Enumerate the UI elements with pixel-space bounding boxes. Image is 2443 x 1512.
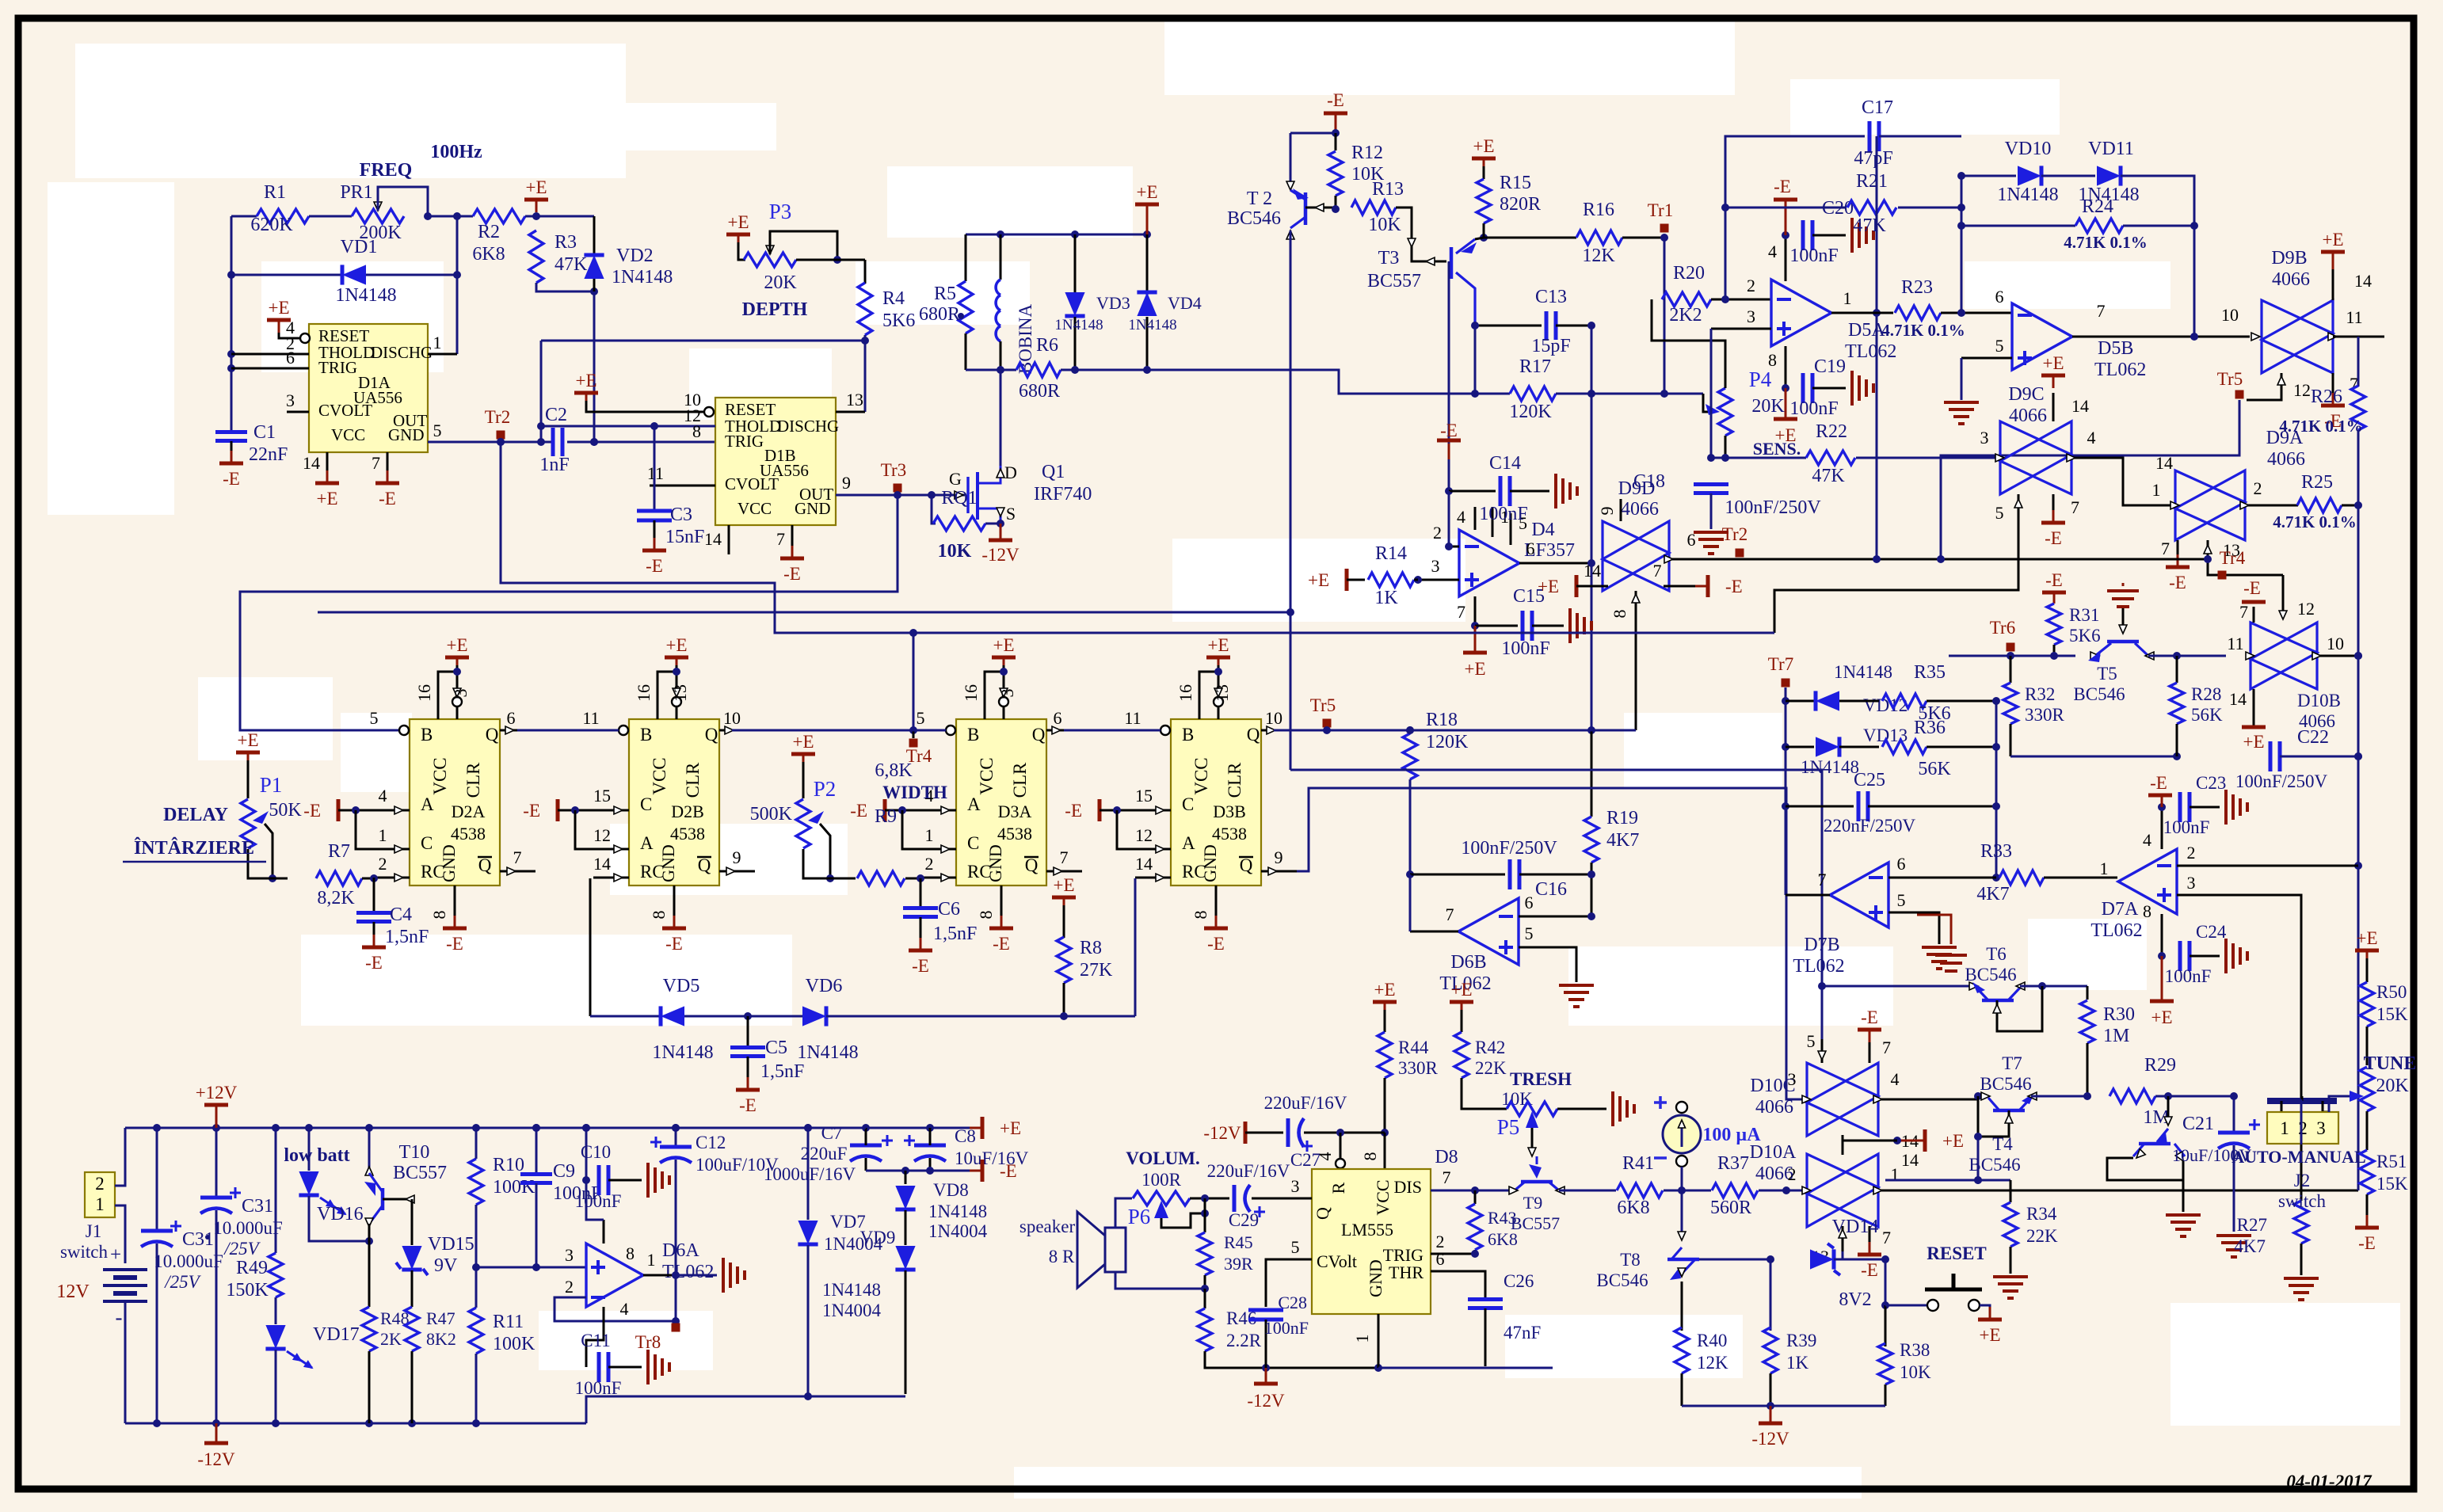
svg-text:4066: 4066 <box>2272 269 2310 290</box>
svg-text:14: 14 <box>2354 271 2372 291</box>
svg-text:FREQ: FREQ <box>360 160 413 181</box>
svg-text:+E: +E <box>1473 136 1494 156</box>
svg-text:VD11: VD11 <box>2088 139 2134 159</box>
svg-text:13: 13 <box>846 390 863 409</box>
svg-text:8,2K: 8,2K <box>317 888 355 908</box>
svg-text:100nF: 100nF <box>1264 1318 1309 1338</box>
svg-text:14: 14 <box>704 529 722 549</box>
svg-text:20K: 20K <box>1751 396 1785 417</box>
wire output bus x2369 <box>1876 136 1878 313</box>
pin 6 wire D7B <box>1888 877 1996 879</box>
pin 4 reset stub <box>279 333 299 338</box>
pin 5 stub D10C <box>1821 1039 1824 1063</box>
capacitor C15 <box>1475 625 1518 627</box>
svg-text:10K: 10K <box>1501 1089 1533 1109</box>
pin 14 wire D9D <box>1575 575 1579 597</box>
svg-text:VCC: VCC <box>650 757 669 794</box>
svg-text:Tr4: Tr4 <box>2220 548 2246 568</box>
wire bus Tr2 to D9C pin5 <box>501 442 1774 633</box>
wire Tr3 run to D2A pin5 <box>240 495 898 730</box>
svg-text:THR: THR <box>1389 1263 1423 1282</box>
diode VD12 <box>1786 700 1814 703</box>
pin 14 stub D9C <box>2052 393 2055 421</box>
svg-text:1: 1 <box>433 333 442 352</box>
svg-text:120K: 120K <box>1509 402 1552 422</box>
svg-text:14: 14 <box>1584 561 1601 581</box>
svg-text:R: R <box>1328 1182 1348 1194</box>
power +E C19 <box>1785 388 1787 417</box>
power -E D9B <box>2321 404 2345 408</box>
diode VD17 LED <box>265 1325 285 1349</box>
capacitor C18 <box>1694 485 1728 493</box>
svg-text:+E: +E <box>727 212 749 232</box>
capacitor C3 <box>654 426 656 511</box>
svg-text:Tr3: Tr3 <box>881 460 906 480</box>
wire T3 collector down <box>1474 326 1477 394</box>
diode VD13 <box>1786 746 1814 748</box>
svg-text:-E: -E <box>1000 1161 1017 1181</box>
svg-text:R1: R1 <box>264 182 286 203</box>
svg-text:Tr6: Tr6 <box>1990 618 2015 638</box>
svg-text:-E: -E <box>1327 90 1344 110</box>
svg-text:10.000uF: 10.000uF <box>213 1218 283 1238</box>
pin C D3A <box>902 810 956 849</box>
opamp D7B TL062 <box>1830 863 1888 927</box>
svg-text:R40: R40 <box>1697 1331 1727 1350</box>
svg-text:1: 1 <box>1352 1335 1372 1343</box>
svg-text:D9D: D9D <box>1618 478 1656 499</box>
svg-text:8: 8 <box>692 421 701 441</box>
svg-text:1: 1 <box>647 1250 656 1270</box>
svg-text:2: 2 <box>925 854 934 874</box>
resistor R5 <box>965 234 967 281</box>
pin 5 OUT wire <box>428 441 553 444</box>
power -E D9C <box>2041 521 2065 525</box>
svg-text:820R: 820R <box>1500 194 1541 215</box>
svg-text:R28: R28 <box>2191 684 2221 704</box>
pin11 circle D2B <box>619 726 628 735</box>
svg-text:12K: 12K <box>1582 246 1615 266</box>
svg-text:BC546: BC546 <box>1596 1270 1648 1290</box>
svg-text:1: 1 <box>2100 859 2109 878</box>
svg-text:GND: GND <box>985 844 1005 882</box>
svg-text:TRIG: TRIG <box>318 358 357 377</box>
svg-text:1N4148: 1N4148 <box>1834 662 1892 682</box>
resistor R7 <box>316 871 362 885</box>
svg-text:T7: T7 <box>2002 1053 2022 1073</box>
svg-text:680R: 680R <box>1019 381 1060 402</box>
wire R3 bottom <box>536 283 594 291</box>
pin Q D2B <box>719 729 737 732</box>
testpoint Tr4 right <box>2208 559 2283 575</box>
power +E pin14 <box>315 482 339 486</box>
svg-text:low batt: low batt <box>284 1145 349 1166</box>
analog switch D10C 4066 <box>1807 1063 1878 1136</box>
resistor R18 <box>1406 726 1414 734</box>
pin 1 stub LM555 <box>1378 1314 1380 1368</box>
capacitor C31 first <box>156 1128 158 1229</box>
diode VD1 <box>231 274 341 276</box>
svg-text:C12: C12 <box>696 1133 726 1152</box>
svg-text:TL062: TL062 <box>662 1262 714 1282</box>
svg-text:C11: C11 <box>581 1331 611 1350</box>
svg-text:1K: 1K <box>1786 1353 1809 1373</box>
svg-text:-E: -E <box>1207 934 1225 954</box>
svg-text:-E: -E <box>2358 1233 2376 1253</box>
pin 3 wire D7A <box>2177 895 2301 1099</box>
svg-text:C8: C8 <box>955 1126 976 1146</box>
wire T8 emitter down <box>1681 1282 1683 1331</box>
svg-text:10K: 10K <box>938 541 972 562</box>
svg-text:D5B: D5B <box>2098 338 2133 359</box>
capacitor C6 <box>920 878 922 908</box>
svg-text:-E: -E <box>223 469 240 489</box>
svg-text:150K: 150K <box>226 1280 269 1301</box>
power +E D10 <box>1923 1129 1927 1152</box>
svg-text:Q: Q <box>1240 855 1253 875</box>
svg-text:C3: C3 <box>670 505 692 525</box>
potentiometer P3 <box>744 253 796 267</box>
svg-text:2: 2 <box>2187 843 2196 863</box>
svg-text:56K: 56K <box>2191 705 2223 725</box>
svg-text:12K: 12K <box>1697 1353 1728 1373</box>
svg-text:1N4004: 1N4004 <box>928 1221 988 1241</box>
svg-text:220uF/16V: 220uF/16V <box>1207 1161 1290 1181</box>
svg-text:C: C <box>967 833 979 853</box>
IC D1A UA556 <box>309 324 428 452</box>
ground C18 <box>1694 531 1728 534</box>
svg-text:100K: 100K <box>493 1177 535 1198</box>
svg-text:4538: 4538 <box>451 824 486 844</box>
svg-text:10.000uF: 10.000uF <box>154 1251 223 1271</box>
svg-text:4538: 4538 <box>997 824 1032 844</box>
pin 14 stub <box>326 452 329 479</box>
svg-text:6: 6 <box>286 348 295 368</box>
testpoint Tr3 <box>894 484 902 493</box>
svg-text:CLR: CLR <box>1225 762 1244 798</box>
svg-text:C1: C1 <box>253 422 276 443</box>
opamp D4 LF357 <box>1459 530 1519 596</box>
svg-text:22nF: 22nF <box>249 444 288 465</box>
resistor R19 <box>1587 726 1595 734</box>
IC D1B UA556 <box>715 398 836 525</box>
pin RC D2B <box>593 877 629 879</box>
svg-text:+E: +E <box>2151 1007 2172 1027</box>
pin A D3B <box>1098 799 1102 821</box>
svg-text:C19: C19 <box>1814 356 1846 377</box>
resistor R23 <box>1895 306 1941 320</box>
power -E D9A <box>2166 566 2190 569</box>
potentiometer P2 WIDTH <box>791 752 815 756</box>
svg-text:7: 7 <box>2239 602 2248 622</box>
earth T5 base <box>2107 591 2139 607</box>
pin 4 wire D10C <box>1878 1099 1978 1101</box>
resistor R37 <box>1712 1183 1758 1198</box>
resistor R1 <box>257 209 309 223</box>
power -E C1 <box>219 462 243 466</box>
power +12V <box>204 1103 228 1107</box>
svg-text:9: 9 <box>733 847 741 867</box>
svg-text:C31: C31 <box>242 1196 273 1217</box>
power -E C5 <box>736 1088 760 1092</box>
svg-text:J2: J2 <box>2294 1171 2310 1190</box>
ground D7B pin5 <box>1922 946 1957 949</box>
svg-text:2.2R: 2.2R <box>1226 1331 1262 1350</box>
pin 7 stub <box>387 452 389 479</box>
svg-text:Q: Q <box>705 725 718 745</box>
svg-text:R5: R5 <box>934 284 956 304</box>
resistor R46 <box>1204 1289 1206 1308</box>
svg-text:6: 6 <box>1995 287 2004 307</box>
resistor R21 feedback <box>1725 207 1846 209</box>
resistor R31 <box>2047 604 2061 645</box>
svg-text:Q1: Q1 <box>1042 462 1065 482</box>
svg-text:-E: -E <box>446 934 463 954</box>
svg-text:560R: 560R <box>1710 1198 1751 1218</box>
svg-text:R8: R8 <box>1080 938 1102 958</box>
svg-text:-E: -E <box>2150 773 2167 793</box>
pin 7 stub D9B <box>2332 373 2334 402</box>
wire D2A Q6 to D2B pin11 <box>517 729 619 732</box>
wire right vertical pin1 <box>456 216 459 354</box>
pin 1 wire <box>428 353 457 356</box>
svg-text:8: 8 <box>626 1243 635 1263</box>
pin 12 stub D9B <box>2247 373 2281 400</box>
svg-text:100Hz: 100Hz <box>430 142 482 162</box>
svg-text:R29: R29 <box>2144 1055 2176 1076</box>
wire VD2 bottom to C2 node <box>593 291 596 442</box>
pin 3 wire <box>1711 328 1771 330</box>
svg-text:T 2: T 2 <box>1247 189 1272 209</box>
diode VD8 <box>905 1171 907 1184</box>
svg-text:1: 1 <box>95 1194 105 1214</box>
svg-text:Q: Q <box>698 855 711 875</box>
svg-text:6K8: 6K8 <box>1617 1198 1649 1218</box>
svg-text:D6B: D6B <box>1450 952 1486 973</box>
svg-text:CVOLT: CVOLT <box>725 474 779 493</box>
svg-text:20K: 20K <box>2376 1076 2409 1096</box>
svg-text:330R: 330R <box>2025 705 2065 725</box>
resistor R28 <box>2173 652 2181 660</box>
testpoint Tr2 right <box>1736 549 1744 558</box>
svg-text:7: 7 <box>2071 497 2079 517</box>
svg-text:100nF: 100nF <box>575 1191 622 1211</box>
svg-text:4: 4 <box>1891 1069 1900 1089</box>
svg-text:D8: D8 <box>1435 1147 1458 1167</box>
capacitor C12 <box>675 1128 677 1147</box>
svg-text:VD14: VD14 <box>1832 1217 1879 1237</box>
wire left vertical <box>231 216 233 432</box>
svg-text:220nF/250V: 220nF/250V <box>1824 816 1916 836</box>
pin 2 wire D9A <box>2245 505 2298 507</box>
svg-text:+E: +E <box>1136 182 1157 202</box>
svg-text:12V: 12V <box>56 1282 90 1302</box>
wire bus to R27 top <box>2300 1099 2303 1144</box>
svg-text:4: 4 <box>1457 507 1465 527</box>
svg-text:7: 7 <box>2161 539 2170 558</box>
svg-text:1: 1 <box>2280 1118 2289 1138</box>
pin 2 wire D7A <box>2177 865 2358 867</box>
pin 14 stub D10C <box>1842 1135 1844 1155</box>
wire T7 emitter column <box>1977 1137 1980 1180</box>
svg-text:R32: R32 <box>2025 684 2055 704</box>
svg-text:12: 12 <box>593 825 611 845</box>
pin 11 wire D10B <box>2246 652 2254 660</box>
opamp D6A TL062 <box>586 1243 643 1307</box>
svg-text:14: 14 <box>1135 854 1153 874</box>
svg-text:-E: -E <box>783 564 801 584</box>
svg-text:+E: +E <box>2322 230 2343 249</box>
svg-text:2: 2 <box>1747 276 1755 295</box>
svg-text:3: 3 <box>286 390 295 410</box>
svg-text:4: 4 <box>620 1299 629 1319</box>
mosfet Q1 IRF740 <box>928 491 936 499</box>
svg-text:VD16: VD16 <box>317 1204 364 1224</box>
svg-text:47pF: 47pF <box>1854 148 1892 169</box>
svg-text:4.71K 0.1%: 4.71K 0.1% <box>1881 321 1965 340</box>
svg-text:+E: +E <box>1053 875 1074 895</box>
power -E D3A <box>989 927 1013 931</box>
svg-text:20K: 20K <box>764 272 797 293</box>
svg-text:BC557: BC557 <box>393 1163 447 1183</box>
power -E pin7 <box>375 482 399 486</box>
ground D6B pin5 <box>1559 984 1594 987</box>
svg-text:C2: C2 <box>545 405 567 425</box>
resistor R49 <box>275 1128 277 1253</box>
svg-text:50K: 50K <box>269 800 302 821</box>
svg-text:VCC: VCC <box>977 757 997 794</box>
svg-text:14: 14 <box>2229 689 2247 709</box>
pin 7 wire D9D <box>1664 585 1702 588</box>
pin5 circle D3A <box>946 726 955 735</box>
svg-text:7: 7 <box>1818 870 1827 889</box>
svg-text:680R: 680R <box>919 304 960 325</box>
svg-text:VD8: VD8 <box>933 1180 969 1200</box>
svg-text:TL062: TL062 <box>2090 920 2142 941</box>
svg-text:R26: R26 <box>2311 387 2342 407</box>
svg-text:D7B: D7B <box>1804 935 1839 955</box>
pin 7 stub <box>791 525 794 554</box>
svg-text:+E: +E <box>2042 353 2064 373</box>
svg-text:D9A: D9A <box>2266 428 2304 448</box>
svg-text:+E: +E <box>2243 732 2264 752</box>
svg-text:VD3: VD3 <box>1096 293 1130 313</box>
svg-text:BC546: BC546 <box>1227 208 1281 229</box>
capacitor C8 <box>914 1144 946 1148</box>
svg-text:R3: R3 <box>555 232 577 253</box>
svg-text:14: 14 <box>2155 453 2173 473</box>
potentiometer PR1 <box>352 209 404 223</box>
svg-text:5: 5 <box>370 708 379 728</box>
pin 3 wire D9C <box>1995 454 2004 462</box>
svg-text:1N4148: 1N4148 <box>822 1280 881 1300</box>
pin 1 wire D9A <box>2170 501 2179 509</box>
power -E R51 <box>2355 1226 2379 1230</box>
svg-text:1N4148: 1N4148 <box>928 1202 987 1221</box>
resistor R13 <box>1351 200 1396 215</box>
svg-text:2: 2 <box>1788 1164 1797 1184</box>
testpoint Tr8 <box>672 1323 680 1332</box>
svg-text:C14: C14 <box>1489 453 1521 474</box>
svg-text:-E: -E <box>2169 573 2186 592</box>
svg-text:1N4148: 1N4148 <box>1997 185 2058 205</box>
svg-text:R24: R24 <box>2082 196 2113 217</box>
svg-text:R45: R45 <box>1224 1232 1253 1252</box>
pin C D2B <box>575 810 629 849</box>
svg-text:Tr1: Tr1 <box>1648 200 1673 220</box>
svg-text:4538: 4538 <box>670 824 705 844</box>
svg-text:R38: R38 <box>1900 1340 1930 1360</box>
wire D3A Q6 to D3B pin11 <box>1064 729 1161 732</box>
opamp D5A TL062 <box>1771 280 1831 346</box>
svg-text:16: 16 <box>414 684 434 702</box>
wire CS minus to R37 node <box>1681 1167 1683 1190</box>
wire speaker bottom <box>1115 1272 1205 1289</box>
svg-text:4: 4 <box>379 786 387 806</box>
analog switch D10A 4066 <box>1807 1154 1878 1227</box>
svg-text:R9: R9 <box>875 806 897 827</box>
svg-text:GND: GND <box>658 844 678 882</box>
svg-text:1: 1 <box>1843 288 1852 308</box>
power -12V T8 <box>1770 1406 1772 1422</box>
svg-text:10K: 10K <box>1368 215 1401 235</box>
svg-text:1,5nF: 1,5nF <box>933 924 977 944</box>
svg-text:330R: 330R <box>1398 1058 1439 1078</box>
svg-text:47K: 47K <box>1853 215 1886 236</box>
power -E rail <box>981 1160 985 1182</box>
svg-text:+E: +E <box>2356 928 2377 948</box>
wire C14 node down <box>1448 491 1450 547</box>
wire D6A out to gnd <box>676 1274 717 1277</box>
svg-text:D9B: D9B <box>2271 248 2307 269</box>
svg-text:C28: C28 <box>1278 1293 1307 1312</box>
analog switch D9C 4066 <box>2000 421 2071 494</box>
svg-text:CLR: CLR <box>1010 762 1030 798</box>
pin 13 stub D10A <box>1842 1226 1844 1251</box>
wire PR1 wiper loop <box>378 187 428 216</box>
wire R32 to C22 row <box>2010 756 2177 758</box>
resistor R14 <box>1345 569 1349 591</box>
pin 8 stub LM555 <box>1384 1133 1386 1169</box>
svg-text:1,5nF: 1,5nF <box>760 1061 804 1082</box>
svg-text:T4: T4 <box>1992 1134 2013 1154</box>
svg-text:G: G <box>949 469 962 489</box>
svg-text:GND: GND <box>1200 844 1220 882</box>
svg-text:+E: +E <box>525 177 547 197</box>
pin 5 wire D7B <box>1888 912 1939 944</box>
svg-text:VD6: VD6 <box>806 976 843 996</box>
resistor R40 <box>1675 1327 1689 1373</box>
svg-text:500K: 500K <box>750 804 793 825</box>
capacitor C16 <box>1406 870 1414 878</box>
svg-text:R37: R37 <box>1717 1153 1749 1174</box>
resistor R3 <box>529 230 543 283</box>
resistor R42 <box>1450 1000 1473 1004</box>
svg-text:4066: 4066 <box>1621 499 1659 520</box>
resistor R29 <box>2110 1089 2155 1103</box>
svg-text:7: 7 <box>1882 1038 1891 1057</box>
svg-text:220uF/16V: 220uF/16V <box>1264 1093 1347 1113</box>
svg-text:6,8K: 6,8K <box>875 760 913 781</box>
svg-text:7: 7 <box>513 847 522 867</box>
diode VD4 <box>1146 234 1149 295</box>
svg-text:R39: R39 <box>1786 1331 1816 1350</box>
svg-text:4538: 4538 <box>1212 824 1247 844</box>
svg-text:-E: -E <box>1774 177 1791 196</box>
wire Tr4 branch <box>913 633 915 730</box>
svg-text:39R: 39R <box>1224 1254 1253 1274</box>
svg-text:3: 3 <box>2187 873 2196 893</box>
